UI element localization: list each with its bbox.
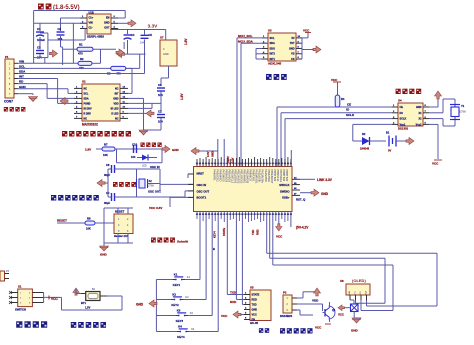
wire loop2 top (270, 257, 385, 259)
svg-text:TXD: TXD (230, 291, 237, 295)
svg-text:KEY1: KEY1 (173, 283, 181, 287)
svg-text:VCC: VCC (276, 235, 283, 239)
wire (297, 303, 323, 305)
wire (185, 190, 194, 192)
regulator U7 1.8V (160, 40, 177, 66)
svg-text:DS18B20: DS18B20 (280, 314, 293, 318)
battery BT1 holder (86, 292, 100, 301)
svg-text:NC: NC (115, 117, 119, 120)
svg-text:CE: CE (347, 103, 351, 107)
svg-text:U7: U7 (160, 36, 164, 40)
svg-text:VBAT: VBAT (226, 156, 230, 163)
crystal X2 (139, 179, 145, 188)
svg-text:30pF: 30pF (104, 173, 110, 177)
wire led row (115, 148, 165, 150)
svg-text:C5: C5 (149, 33, 153, 37)
svg-text:INT: INT (115, 92, 119, 95)
svg-text:VCC: VCC (303, 29, 310, 33)
wire U3 right pin (296, 53, 302, 55)
svg-text:GND: GND (100, 253, 108, 257)
capacitor C4 (124, 34, 132, 36)
wire loop1 right (436, 253, 438, 306)
power arrow gnd MAX sda (60, 98, 68, 105)
crystal Y1 32768 (450, 104, 460, 106)
svg-text:C2: C2 (58, 27, 62, 31)
svg-text:PGND: PGND (84, 102, 91, 105)
svg-text:5V: 5V (291, 37, 294, 40)
svg-text:SE/SPL-05B3: SE/SPL-05B3 (87, 35, 104, 39)
wire (39, 54, 41, 58)
svg-text:SCL: SCL (84, 92, 89, 95)
wire MCU left pin (188, 190, 194, 192)
wire (353, 300, 355, 304)
capacitor C5 (141, 34, 149, 36)
MCU bottom pins (196, 212, 198, 220)
wire (429, 106, 438, 108)
wire oled loop2 (269, 212, 271, 259)
wire (58, 102, 74, 104)
wire bt txd line (241, 212, 243, 305)
svg-text:3.3V: 3.3V (231, 157, 235, 163)
svg-text:K3: K3 (190, 311, 194, 315)
wire (156, 279, 172, 281)
label zhudianyuankou (4, 107, 8, 112)
svg-text:VCC: VCC (51, 297, 58, 301)
wire (131, 68, 133, 93)
svg-text:Header 2X3: Header 2X3 (114, 234, 129, 238)
svg-text:GND: GND (351, 329, 359, 333)
svg-text:X2: X2 (149, 179, 153, 183)
wire P1 pin stub (14, 78, 18, 80)
svg-text:C3: C3 (37, 46, 41, 50)
wire (127, 30, 129, 35)
svg-text:VCC: VCC (338, 313, 344, 317)
svg-text:GND: GND (289, 47, 295, 50)
wire (68, 92, 74, 94)
svg-text:GND: GND (416, 106, 422, 109)
svg-text:1.8V: 1.8V (184, 38, 188, 45)
wire U1 left pin (80, 28, 87, 30)
wire (161, 77, 169, 79)
wire (323, 312, 326, 314)
resistor R1 (77, 47, 93, 51)
svg-text:C7: C7 (158, 110, 162, 114)
svg-text:SDO: SDO (270, 47, 275, 50)
transistor Q1 (324, 309, 326, 317)
wire P2 pin (292, 303, 297, 305)
svg-text:R DRV: R DRV (84, 112, 92, 115)
wire (108, 168, 112, 170)
svg-text:ADXL345: ADXL345 (268, 62, 282, 66)
wire (136, 188, 138, 197)
wire mcu top v1 (217, 139, 219, 167)
power arrow U3 gnd port (313, 46, 321, 53)
wire SDA bus (18, 73, 145, 75)
svg-text:VCC: VCC (252, 314, 257, 317)
wire (61, 17, 81, 19)
svg-text:DS1302: DS1302 (398, 127, 409, 131)
svg-text:VCC: VCC (331, 78, 338, 82)
wire (227, 294, 244, 296)
wire (126, 67, 132, 69)
wire U5 pin (244, 314, 250, 316)
svg-text:1N4148: 1N4148 (360, 147, 370, 151)
capacitor C6 (157, 87, 165, 89)
ground OLED (352, 318, 361, 323)
wire P3 pin (5, 273, 10, 275)
wire (353, 312, 355, 319)
svg-text:NC: NC (115, 87, 119, 90)
wire (115, 196, 119, 198)
wire U2 right pin (120, 107, 128, 109)
wire (60, 36, 62, 47)
wire S1 left pin (11, 297, 18, 299)
svg-text:VCC: VCC (355, 290, 357, 295)
wire (93, 48, 116, 50)
wire loop2 right (384, 258, 386, 303)
wire mcu top v3 (290, 150, 292, 167)
label jibuqi label (266, 74, 272, 80)
wire MCU left pin (188, 183, 194, 185)
wire SCLK (285, 118, 392, 120)
wire (144, 30, 146, 35)
wire (151, 103, 153, 108)
svg-text:NC: NC (84, 117, 88, 120)
svg-text:GND: GND (349, 290, 351, 295)
svg-text:C4: C4 (131, 33, 135, 37)
wire U1 right pin (111, 28, 118, 30)
label dianyuanshuru (71, 322, 77, 328)
wire (160, 118, 162, 130)
svg-text:TXD: TXD (251, 230, 255, 235)
wire U2 right pin (120, 102, 128, 104)
wire (118, 168, 160, 170)
wire (188, 315, 212, 317)
wire IO (281, 112, 392, 114)
wire (352, 124, 354, 141)
wire (148, 183, 161, 185)
wire (170, 196, 194, 198)
wire MCU left pin (188, 173, 194, 175)
wire key2 line (205, 212, 207, 300)
wire U5 pin (244, 304, 250, 306)
svg-text:SWCLK: SWCLK (279, 183, 289, 187)
wire U3 sel bracket (255, 49, 257, 60)
wire (136, 169, 138, 179)
resistor R2 (78, 61, 92, 65)
wire (137, 157, 142, 159)
svg-text:RST_Q: RST_Q (296, 198, 306, 202)
svg-text:104: 104 (140, 42, 145, 45)
svg-text:R7: R7 (104, 143, 108, 147)
wire VIN drop (72, 23, 74, 63)
wire bottom rail (62, 309, 123, 311)
wire (329, 302, 331, 308)
power arrow oled vcc port (338, 305, 344, 311)
wire SCL riser (139, 54, 141, 68)
svg-text:GND: GND (104, 22, 110, 25)
svg-text:U4: U4 (398, 99, 402, 103)
svg-text:PB9/TIM4: PB9/TIM4 (285, 170, 289, 182)
wire (95, 222, 114, 224)
wire (18, 93, 33, 95)
wire (108, 196, 112, 198)
svg-text:VCC 3.3V: VCC 3.3V (149, 206, 162, 210)
wire (159, 169, 161, 184)
wire U3 left pin (262, 58, 268, 60)
svg-text:P2: P2 (283, 291, 287, 295)
wire (322, 304, 324, 311)
wire P2 pin (292, 297, 297, 299)
wire (190, 331, 219, 333)
wire U5 pin (244, 309, 250, 311)
svg-text:GND: GND (172, 148, 180, 152)
wire (18, 88, 68, 90)
wire MCU_SCL vertical (236, 38, 238, 167)
switch S2 reset button (114, 214, 133, 234)
wire (118, 196, 137, 198)
wire (103, 223, 105, 243)
svg-text:C6: C6 (158, 83, 162, 87)
svg-text:K4: K4 (191, 327, 195, 331)
svg-text:NRST: NRST (197, 172, 205, 176)
svg-text:B1: B1 (386, 131, 390, 135)
svg-text:VS: VS (291, 53, 295, 56)
wire U3 left pin (262, 42, 268, 44)
wire (117, 162, 163, 164)
svg-text:U8: U8 (340, 279, 344, 283)
wire U3 left pin (262, 53, 268, 55)
svg-text:K2: K2 (172, 293, 176, 297)
wire loop2 bottom (356, 302, 386, 304)
wire (144, 129, 162, 131)
svg-text:R LED: R LED (111, 112, 118, 115)
wire U4 right pin (423, 112, 429, 114)
wire key1 line (199, 212, 201, 280)
wire (300, 314, 313, 316)
svg-text:32768: 32768 (459, 111, 466, 114)
wire U4 left pin (392, 112, 398, 114)
capacitor C3 (36, 50, 44, 52)
svg-text:GND: GND (321, 192, 329, 196)
svg-text:C1: C1 (37, 27, 41, 31)
wire (107, 169, 109, 197)
capacitor C8 (111, 165, 113, 173)
svg-text:B: B (213, 247, 215, 251)
svg-text:U3: U3 (268, 29, 272, 33)
wire (67, 89, 69, 94)
wire BT1 pin2 (81, 293, 86, 295)
op-amp U4 DS1302 (398, 103, 423, 126)
wire mcu top v2 (223, 139, 225, 167)
svg-text:10K: 10K (86, 227, 91, 231)
svg-text:BOOT1: BOOT1 (197, 196, 207, 200)
svg-text:RESET: RESET (115, 210, 125, 214)
wire (266, 212, 268, 254)
wire (160, 92, 162, 114)
svg-text:U1B: U1B (89, 11, 94, 15)
battery B1 3V (388, 136, 390, 147)
svg-text:VDD: VDD (113, 102, 118, 105)
connector P1 CON7 (5, 59, 14, 98)
wire U3 right pin (296, 37, 302, 39)
wire (92, 62, 101, 64)
wire S1 right pin (32, 297, 43, 299)
svg-text:IR DRV: IR DRV (84, 107, 92, 110)
wire MCU_SDA vertical (240, 43, 242, 166)
wire (60, 18, 62, 31)
svg-text:BT1: BT1 (81, 301, 86, 305)
wire (128, 107, 152, 109)
wire (128, 92, 132, 94)
resistor R8 (85, 221, 95, 225)
wire (297, 309, 300, 311)
power arrow mcu vcc port (276, 224, 282, 231)
wire U3 right pin (296, 42, 302, 44)
ground reset (100, 246, 109, 251)
svg-text:(OLED): (OLED) (352, 278, 366, 283)
wire (47, 33, 49, 58)
wire (343, 307, 351, 309)
svg-text:MAX30102: MAX30102 (82, 123, 98, 127)
power arrow pullup port (116, 49, 124, 56)
wire (169, 197, 171, 207)
power arrow mcu gnd port (311, 189, 319, 196)
wire (307, 33, 309, 38)
wire MCU right pin (292, 189, 300, 191)
wire U4 left pin (392, 118, 398, 120)
wire (57, 79, 59, 104)
wire (168, 66, 170, 78)
wire MCU right pin (292, 194, 300, 196)
capacitor C7 (157, 114, 165, 116)
wire (442, 119, 444, 126)
svg-text:GND: GND (113, 97, 119, 100)
svg-text:K3: K3 (177, 309, 181, 313)
svg-text:100uF: 100uF (37, 38, 45, 42)
wire U2 gnd rail (143, 98, 145, 130)
wire (299, 310, 301, 315)
svg-text:K4: K4 (178, 325, 182, 329)
wire (159, 184, 161, 194)
wire (256, 58, 262, 60)
label shizhong label (396, 89, 401, 94)
svg-text:GND: GND (252, 309, 258, 312)
svg-text:3V: 3V (388, 149, 391, 153)
wire (256, 53, 262, 55)
wire input left rail (33, 11, 35, 64)
wire (117, 29, 119, 30)
wire MCU right pin (292, 178, 300, 180)
op-amp U3 ADXL345 (268, 33, 296, 61)
wire (396, 140, 406, 142)
wire (165, 30, 167, 41)
connector P2 DS18B20 (283, 295, 292, 313)
svg-text:GND: GND (136, 303, 144, 307)
svg-text:C1+: C1+ (89, 17, 94, 20)
wire loop1 bottom (367, 305, 438, 307)
capacitor C1 (36, 31, 44, 33)
svg-text:RESET: RESET (57, 219, 67, 223)
svg-text:LED: LED (142, 165, 147, 168)
wire U5 pin (244, 319, 250, 321)
wire (118, 22, 131, 24)
svg-text:473: 473 (78, 52, 83, 56)
wire (300, 192, 311, 194)
wire (161, 149, 163, 163)
wire U1 left pin (80, 17, 87, 19)
wire U4 right pin (423, 123, 429, 125)
wire VIN bus (18, 62, 78, 64)
svg-text:SCLK: SCLK (346, 113, 355, 117)
capacitor C10 (133, 145, 135, 153)
wire P1 pin stub (14, 93, 18, 95)
svg-text:R1: R1 (79, 43, 83, 47)
wire U4 right pin (423, 106, 429, 108)
wire U3 right pin (296, 58, 302, 60)
svg-text:SCLK: SCLK (400, 118, 407, 121)
svg-text:GND: GND (163, 53, 169, 56)
svg-text:R8: R8 (87, 217, 91, 221)
wire P3 pin (5, 278, 10, 280)
wire loop3 top (273, 264, 393, 266)
wire input top (34, 10, 126, 12)
wire OLED pin (349, 295, 351, 300)
wire U2 right pin (120, 112, 128, 114)
wire (127, 40, 129, 54)
wire loop1 top (267, 252, 437, 254)
wire CE vertical (276, 107, 278, 167)
wire (63, 48, 77, 50)
svg-text:STATE: STATE (252, 294, 260, 297)
svg-text:3.3V: 3.3V (148, 24, 159, 30)
op-amp U1 boost converter (87, 14, 111, 34)
wire (127, 208, 129, 214)
svg-text:SDA: SDA (84, 97, 89, 100)
svg-text:(5V-4.2V: (5V-4.2V (296, 226, 309, 230)
wire (117, 208, 119, 214)
wire U2 left pin (74, 87, 82, 89)
wire CE (277, 106, 392, 108)
svg-text:USB+: USB+ (282, 196, 290, 200)
svg-text:SDA: SDA (19, 70, 26, 74)
wire (302, 49, 313, 51)
op-amp U2 MAX30102 (82, 84, 120, 121)
svg-text:1.8V: 1.8V (180, 93, 184, 100)
label lanya label (259, 328, 263, 333)
power arrow gnd C4 (117, 51, 125, 58)
wire (39, 23, 41, 31)
svg-text:R2: R2 (80, 57, 84, 61)
wire P1 pin stub (14, 88, 18, 90)
wire (103, 243, 105, 246)
wire (100, 49, 102, 63)
wire (240, 314, 244, 316)
svg-text:C8: C8 (106, 163, 110, 167)
switch S1 power (18, 289, 33, 307)
svg-text:R4: R4 (341, 97, 345, 101)
svg-text:SCL: SCL (270, 37, 275, 40)
wire (103, 208, 105, 223)
wire U4 left pin (392, 106, 398, 108)
wire (355, 300, 357, 303)
wire (442, 99, 444, 113)
wire U2 left pin (74, 92, 82, 94)
wire U2 left pin (74, 112, 82, 114)
svg-text:KEY4: KEY4 (177, 335, 185, 339)
svg-text:SWITCH: SWITCH (15, 308, 26, 312)
wire SCLK vertical (284, 119, 286, 167)
